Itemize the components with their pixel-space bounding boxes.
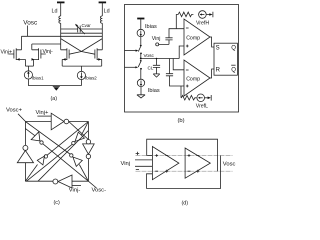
svg-text:CL: CL [148,66,154,71]
A2 polarity marks bottom [188,170,200,173]
svg-text:Vosc+: Vosc+ [6,108,23,114]
inverter top (injection) [51,113,64,130]
wire cross pair source rail [62,65,101,67]
ring right edge [87,122,89,182]
inverter P2 (up-left) [73,157,82,166]
svg-text:Ibias1: Ibias1 [32,76,44,81]
wire long rail node A [22,35,103,37]
resistor RrefH [178,12,193,17]
wire Ibias1 to bottom rail [27,79,29,86]
node bubble right mid [86,140,90,144]
wire switch2 to current source [140,69,142,79]
cross-coupled transistor M4 [95,48,102,60]
switch S1 control arrow from feedback [125,50,136,52]
wire diagonal P4 to TR [47,122,88,156]
current source Ibias top [137,29,144,36]
svg-text:Vinj-: Vinj- [69,187,81,193]
wire VrefL branch [180,86,182,98]
wire inductor-right to tank node B [101,23,103,50]
supply rail bar right [99,1,107,3]
wire U1 out to S [210,37,214,47]
ring left edge [24,122,26,182]
wire feedback bottom loop [147,156,221,189]
cross-coupled transistor M3 [61,48,69,60]
wire tank top with Cvar gap [61,28,103,30]
switch S1 arm [138,47,140,52]
supply bar Ibias top [137,18,144,20]
svg-text:R: R [216,68,221,74]
capacitor Cvar variable arrow [77,26,85,34]
svg-text:Vinj-: Vinj- [43,49,54,55]
wire feedback top loop [147,139,218,171]
wire M2 drain up [31,44,33,50]
wire vdd-right to inductor [101,2,103,16]
bubble left inverter [23,145,28,150]
wire CL to ground [156,67,158,74]
signal line top (dashed) [136,155,233,157]
wire source to switch1 [140,37,142,45]
wire diagonal BR stub [79,165,88,182]
svg-text:Ibias: Ibias [148,88,160,94]
bubble P2 [70,154,73,157]
svg-text:S: S [216,46,220,52]
wire diagonal TL stub [25,129,35,136]
wire Ibias bottom to ground [140,87,142,95]
bubble bottom inverter [53,179,58,184]
wire rail node B lower [32,43,61,45]
bubble right inverter [86,154,90,158]
inductor Ld right [100,16,102,23]
U1 plus mark [186,45,189,48]
wire C1 top to minus node [169,29,184,38]
wire M1 drain up [21,36,23,50]
wire VrefL to supply arrow [205,97,208,99]
minus mark input [136,169,139,171]
wire diagonal P3 to BL [27,144,73,181]
SUBFIGURE B [125,5,239,125]
capacitor CL plates [153,65,160,67]
wire bar to current source [140,19,142,30]
svg-text:Vinj: Vinj [152,36,161,42]
wire Vosc- hook [88,181,96,188]
bubble P1 [40,141,43,144]
inverter bottom (injection) [58,175,72,188]
SUBFIGURE D [121,139,236,206]
A2 polarity marks top [188,154,200,157]
wire Ibias2 to bottom rail [80,80,82,86]
wire bottom rail [28,85,81,87]
node dot rail left [140,58,142,60]
wire vdd-left to inductor [60,2,62,16]
switch S2 arm [138,62,141,67]
svg-text:Vosc: Vosc [23,19,38,26]
svg-text:Ibias2: Ibias2 [85,76,97,81]
terminal Vinj [156,43,159,46]
ground symbol [53,86,60,88]
transistor M2 [32,48,46,60]
wire VrefH to supply arrow [206,14,209,16]
plus mark input [136,152,140,156]
svg-text:Vinj+: Vinj+ [36,110,50,116]
current source Ibias bottom [137,79,144,86]
wire Vinj+ input [37,115,51,117]
svg-text:Ld: Ld [104,9,110,15]
source VrefH circle [199,11,207,19]
wire to Ibias1 [27,66,29,71]
wire diagonal TR stub [81,122,88,136]
switch S1 contact dots [140,45,142,47]
A1 polarity marks top [155,154,168,157]
supply arrow VrefH [209,13,212,16]
inverter left edge (up) [17,151,33,163]
wire input minus line [135,165,152,167]
svg-text:Ld: Ld [52,9,58,15]
svg-text:Vinj: Vinj [121,161,131,167]
signal line bottom (dashed) [136,170,233,172]
wire U2 minus to rail [173,59,184,70]
wire Vosc rail [141,58,179,60]
wire to Ibias2 [80,66,82,71]
source VrefL circle [197,94,205,102]
wire M1 source down [24,59,26,66]
capacitor Cvar plates [78,26,81,33]
svg-text:Q: Q [231,46,236,52]
outer box [125,5,239,113]
wire diagonal top to right-mid bubble [69,122,89,140]
SUBFIGURE A [1,2,110,102]
svg-text:Cvar: Cvar [82,23,92,28]
wire input plus line [135,159,152,161]
current source Ibias2 [77,71,85,79]
wire diff pair source rail [25,65,33,67]
U2 minus mark [186,69,189,71]
svg-text:(c): (c) [54,200,60,206]
wire M3 source down [61,59,63,66]
svg-text:VrefH: VrefH [196,21,209,27]
svg-text:Vinj+: Vinj+ [1,49,13,55]
comparator U1 [184,19,210,55]
svg-text:Vosc: Vosc [223,161,236,167]
wire diagonal P1 to BR [43,144,89,182]
wire cross-coupling diagonal A-to-M4gate [61,39,95,55]
U2 plus mark [186,85,189,88]
switch S2 control arrow from feedback [125,66,136,68]
inverter P4 (up-right) [37,156,44,165]
bubble P3 [72,141,75,144]
inverter P1 (down-right) [31,132,40,141]
svg-text:Vosc-: Vosc- [92,187,107,193]
svg-text:Ibias: Ibias [145,24,157,30]
svg-text:Comp: Comp [186,77,200,83]
wire diagonal BL stub [25,165,37,182]
wire C2 tap from rail [169,59,171,74]
switch S2 contact dot [140,60,142,62]
ring top edge [25,121,88,123]
amplifier A1 [152,147,179,180]
capacitor C1 plates [165,38,172,40]
ground symbol CL [153,74,160,77]
inverter right edge (down) [83,144,95,154]
SR latch box [214,43,237,75]
U1 minus mark [186,27,189,29]
wire M4 source down [101,59,103,66]
wire diagonal P2 to TL [25,122,70,155]
wire M2 source down [33,59,35,66]
svg-text:(a): (a) [51,96,58,102]
inverter P3 (down-left) [75,132,84,141]
SUBFIGURE C [6,108,106,207]
wire inductor-left to tank node A [60,23,62,50]
comparator U2 [184,60,210,96]
svg-text:(b): (b) [178,118,185,124]
ring bottom edge [25,180,88,182]
wire U1 plus to Vosc rail [179,46,184,59]
ground symbol bottom left [137,95,145,98]
supply rail bar left [57,1,65,3]
capacitor C2 plates [166,74,173,76]
wire diagonal right edge to bottom [38,131,88,182]
node Vosc stub [27,26,29,37]
resistor RrefL [181,95,196,100]
A1 polarity marks bottom [155,170,168,173]
wire cross-coupling diagonal B-to-M3gate [69,39,102,55]
wire CL tap [156,59,158,66]
bubble P4 [44,155,47,158]
supply arrow VrefL [208,97,211,100]
amplifier A2 [185,148,210,178]
wire tank mid rail [61,32,103,34]
transistor M1 [9,48,25,60]
svg-text:VrefL: VrefL [196,103,208,109]
inductor Ld left [59,16,61,23]
bubble top inverter [64,119,69,124]
wire U2 out to R [210,69,214,78]
current source Ibias1 [24,71,32,79]
wire minus node up to resistor [176,15,178,29]
wire C2 bottom to U2 plus [170,76,185,86]
wire Vinj to cap C1 [159,40,169,45]
svg-text:Comp: Comp [186,36,200,42]
wire switch1 to rail [140,53,142,58]
svg-text:Q: Q [231,68,236,74]
wire Vinj- input [72,185,81,187]
svg-text:(d): (d) [182,201,189,207]
wire Vosc+ hook [18,114,25,122]
